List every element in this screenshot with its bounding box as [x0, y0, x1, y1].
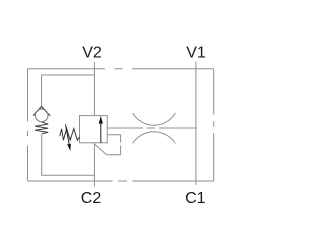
wire check valve to C2 return [42, 134, 94, 175]
enclosure boundary right [213, 69, 215, 181]
relief valve flow arrow [100, 122, 102, 143]
relief valve adjustment arrow [66, 125, 70, 146]
relief valve body [80, 116, 108, 143]
svg-text:V1: V1 [186, 45, 206, 62]
wire V2 riser [93, 62, 95, 116]
wire C2 drop [93, 143, 95, 187]
wire V1 riser [195, 62, 197, 186]
wire V2 branch to check valve [42, 75, 95, 107]
relief valve spring [60, 129, 80, 141]
orifice lower contour [133, 132, 176, 144]
check valve ball [35, 109, 48, 122]
check valve spring [35, 122, 48, 134]
pilot line loop [94, 135, 120, 155]
enclosure boundary left [27, 69, 29, 181]
enclosure boundary top [28, 68, 214, 70]
check valve seat [33, 107, 50, 116]
svg-text:V2: V2 [82, 45, 102, 62]
wire valve outlet to orifice [107, 127, 143, 129]
svg-text:C1: C1 [185, 190, 206, 207]
orifice throat dash [147, 127, 155, 129]
orifice upper contour [133, 113, 176, 125]
svg-text:C2: C2 [81, 190, 102, 207]
enclosure boundary bottom [28, 180, 214, 182]
wire orifice to V1 [159, 127, 196, 129]
